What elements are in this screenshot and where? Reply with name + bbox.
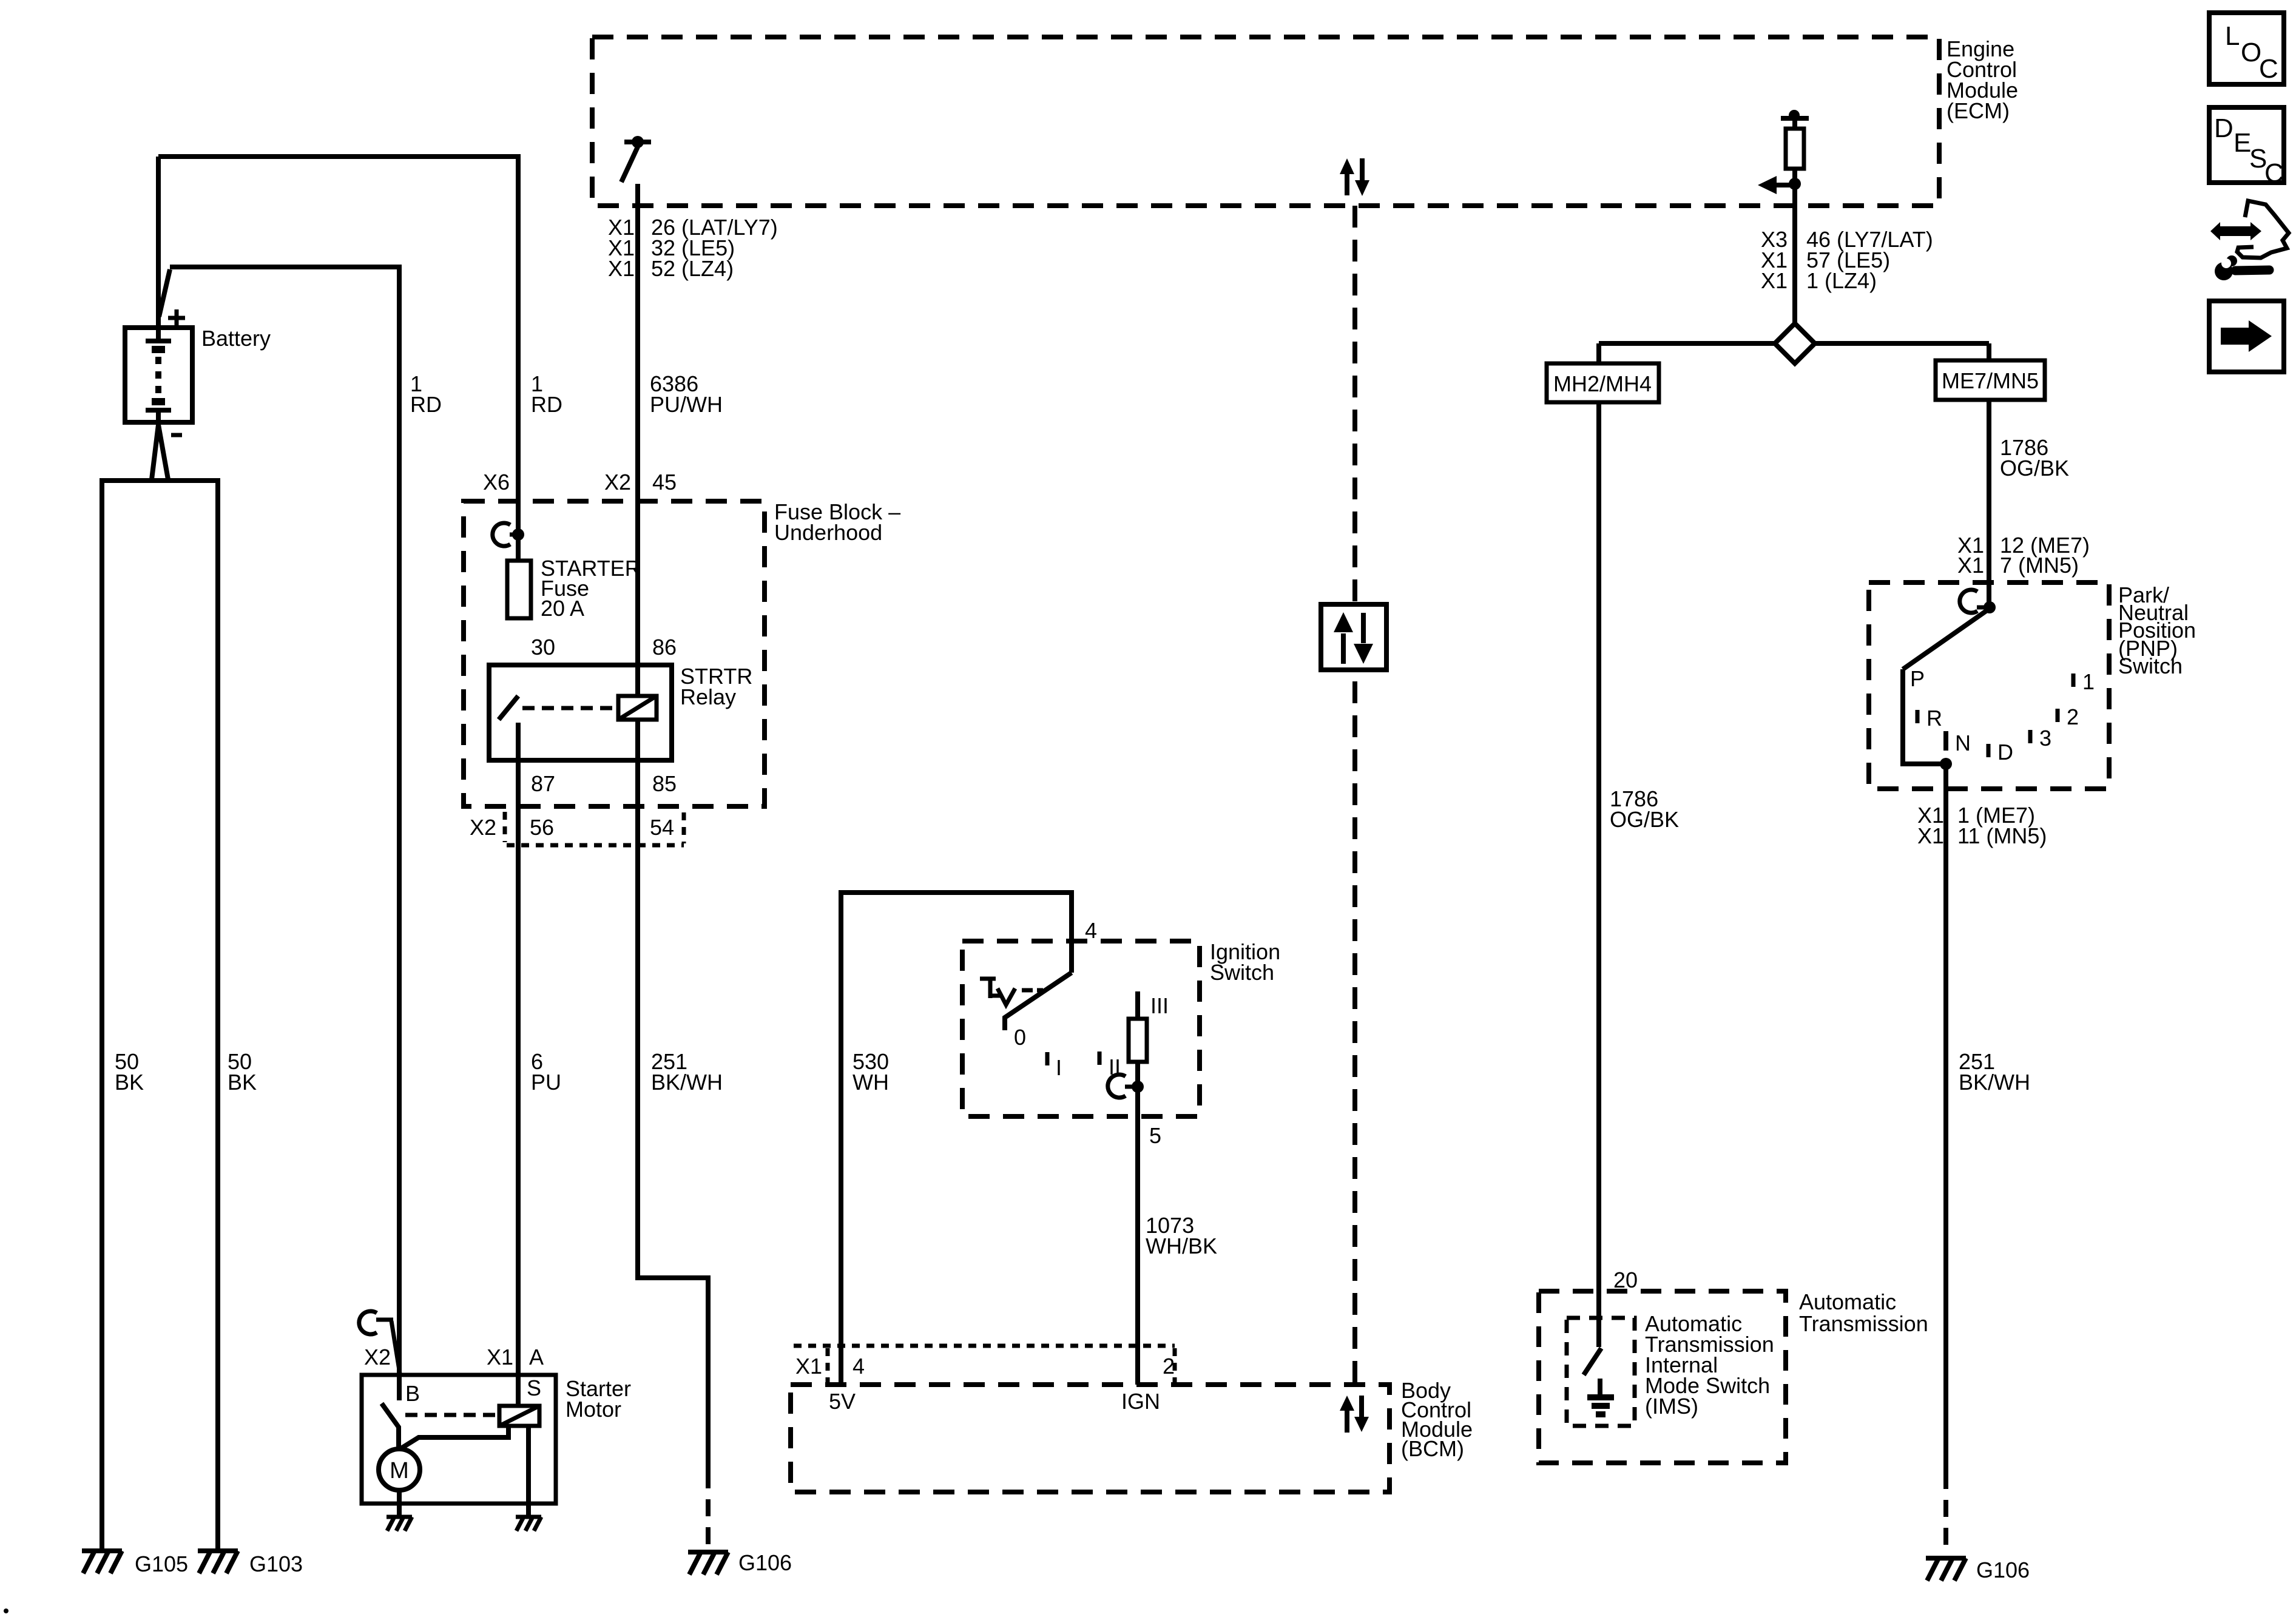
svg-text:0: 0 [1014, 1025, 1026, 1050]
BCM up/down arrows [1340, 1396, 1369, 1433]
wire coil to motor [401, 1426, 508, 1448]
ground G105 [82, 1551, 122, 1573]
wire ground bus [102, 478, 218, 483]
svg-text:G106: G106 [738, 1550, 792, 1575]
wire rail2 to starter B (1 RD left) [170, 267, 399, 1400]
svg-text:G103: G103 [249, 1551, 303, 1576]
connector ign pin5 symbol [1108, 1075, 1144, 1098]
svg-text:5V: 5V [829, 1389, 856, 1414]
svg-text:5: 5 [1149, 1123, 1161, 1148]
MH2/MH4 box [1547, 363, 1659, 402]
arrow box [2209, 301, 2284, 372]
BCM label [1401, 1378, 1473, 1461]
PNP switch blade [1903, 609, 1990, 669]
ground G106 right [1926, 1558, 1966, 1581]
relay dashed link [522, 706, 618, 711]
contact 2 tick and label [2056, 709, 2060, 722]
svg-text:45: 45 [652, 470, 677, 495]
svg-text:X1: X1 [608, 256, 635, 281]
wire motor to ground [397, 1490, 402, 1517]
svg-text:PU/WH: PU/WH [650, 392, 723, 417]
page dot [4, 1609, 8, 1613]
svg-text:C: C [2264, 158, 2284, 188]
wire bus right corner to ME7/MN5 [1987, 343, 1991, 360]
wire dashed to G106 right [1943, 1472, 1948, 1557]
svg-text:III: III [1150, 993, 1169, 1018]
svg-text:Switch: Switch [1210, 960, 1274, 985]
svg-text:PU: PU [531, 1070, 561, 1095]
battery [125, 328, 192, 424]
svg-text:D: D [1997, 740, 2013, 765]
DESC box [2209, 107, 2284, 188]
svg-text:Automatic: Automatic [1799, 1289, 1896, 1314]
svg-text:1 (LZ4): 1 (LZ4) [1806, 268, 1877, 293]
contact 1 tick and label [2071, 673, 2076, 687]
ground G103 [198, 1551, 238, 1573]
svg-text:X1: X1 [487, 1345, 513, 1369]
svg-text:WH/BK: WH/BK [1146, 1234, 1217, 1258]
LOC box [2209, 13, 2284, 84]
PNP N contact stub [1943, 731, 1948, 751]
connector X2 starter symbol [359, 1311, 400, 1374]
wire 530 WH [841, 893, 1072, 1385]
wire relay 85 down (251 BK/WH) [638, 720, 708, 1471]
ground starter motor [387, 1517, 412, 1531]
connector X6 symbol [493, 523, 524, 546]
wire solenoid to ground [526, 1426, 531, 1517]
wire 6386 PU/WH from ECM [635, 184, 640, 696]
label PNP pins top [1957, 533, 2090, 578]
wire battery negative V split [152, 425, 168, 479]
svg-text:52 (LZ4): 52 (LZ4) [651, 256, 734, 281]
serial data dashed wire ECM to BCM [1352, 206, 1357, 1385]
svg-text:Relay: Relay [680, 684, 736, 709]
svg-text:Motor: Motor [566, 1397, 621, 1422]
wire relay 87 down to starter S [516, 723, 521, 1406]
splice diamond [1775, 323, 1815, 363]
svg-text:86: 86 [652, 635, 677, 660]
svg-text:(IMS): (IMS) [1645, 1394, 1698, 1419]
starter switch blade [382, 1403, 399, 1449]
svg-text:56: 56 [530, 815, 554, 840]
svg-text:RD: RD [410, 392, 442, 417]
svg-text:BK: BK [228, 1070, 257, 1095]
IMS label [1645, 1311, 1774, 1419]
ECM module dashed box [592, 37, 1939, 206]
BCM dashed box [791, 1385, 1389, 1492]
svg-text:X1: X1 [1917, 823, 1944, 848]
contact II tick and label [1098, 1052, 1102, 1065]
svg-text:R: R [1926, 706, 1942, 731]
svg-text:M: M [390, 1458, 409, 1484]
starter motor box [362, 1375, 556, 1504]
svg-text:P: P [1910, 666, 1925, 691]
contact D tick and label [1987, 744, 1991, 757]
svg-text:N: N [1955, 731, 1971, 755]
ignition lock contact symbol [980, 979, 1043, 1005]
svg-text:S: S [527, 1376, 541, 1400]
svg-text:E: E [2234, 128, 2251, 158]
connector X1 row at BCM [794, 1346, 1175, 1382]
starter dashed link [405, 1413, 498, 1417]
contact 3 tick and label [2028, 730, 2033, 743]
svg-text:2: 2 [2067, 704, 2079, 729]
fuse block underhood dashed box [464, 501, 765, 806]
splice bus wire [1599, 341, 1989, 346]
svg-text:X1: X1 [795, 1354, 822, 1379]
svg-text:87: 87 [531, 771, 555, 796]
motor M circle [379, 1449, 420, 1490]
fuse STARTER 20A [507, 561, 531, 618]
svg-text:2: 2 [1163, 1354, 1175, 1379]
svg-text:G105: G105 [135, 1551, 188, 1576]
ground G106 left [688, 1552, 728, 1575]
wire bus left corner to MH2/MH4 [1596, 343, 1601, 363]
wire ME7/MN5 down to PNP (1786 OG/BK) [1987, 400, 1991, 607]
PNP label [2118, 582, 2196, 678]
wire PNP N down (251 BK/WH) [1943, 764, 1948, 1472]
svg-text:L: L [2225, 21, 2240, 51]
ignition resistor element [1135, 991, 1140, 1019]
wire MH2/MH4 down to IMS (1786 OG/BK) [1596, 402, 1601, 1347]
svg-text:X2: X2 [604, 470, 631, 495]
relay coil [618, 696, 657, 720]
svg-text:OG/BK: OG/BK [2000, 456, 2069, 481]
ECM resistor element right [1781, 110, 1809, 169]
label PNP pins bottom [1917, 803, 2047, 848]
starter solenoid coil [499, 1406, 539, 1426]
svg-text:RD: RD [531, 392, 562, 417]
svg-text:85: 85 [652, 771, 677, 796]
svg-text:MH2/MH4: MH2/MH4 [1553, 371, 1652, 396]
svg-text:X2: X2 [364, 1345, 391, 1369]
hand and wrench icon [2210, 201, 2289, 280]
automatic transmission outer dashed box [1539, 1291, 1786, 1463]
svg-text:3: 3 [2039, 726, 2051, 751]
battery minus sign [171, 433, 182, 437]
ignition switch blade [1005, 973, 1072, 1030]
svg-text:ME7/MN5: ME7/MN5 [1942, 368, 2039, 393]
svg-text:BK/WH: BK/WH [651, 1070, 723, 1095]
label ECM pins right [1761, 227, 1933, 293]
svg-text:C: C [2259, 54, 2278, 84]
wire 50 BK left [100, 478, 104, 1551]
svg-text:D: D [2214, 113, 2234, 143]
relay box [489, 665, 672, 760]
wire rail2 diagonal from battery [159, 269, 170, 317]
svg-text:BK/WH: BK/WH [1959, 1070, 2030, 1095]
svg-text:4: 4 [853, 1354, 865, 1379]
svg-text:G106: G106 [1976, 1558, 2030, 1582]
svg-text:11 (MN5): 11 (MN5) [1957, 823, 2047, 848]
label ECM pins left [608, 215, 778, 281]
svg-text:(BCM): (BCM) [1401, 1436, 1464, 1461]
svg-text:20: 20 [1613, 1268, 1638, 1292]
svg-text:A: A [529, 1345, 544, 1369]
wire 251 dashed to ground [706, 1471, 711, 1551]
wire ign pin 5 to BCM (1073 WH/BK) [1135, 1062, 1140, 1385]
relay switch blade [499, 696, 518, 720]
ECM left arrow [1758, 176, 1801, 194]
svg-text:X1: X1 [1761, 268, 1788, 293]
wire 50 BK right [215, 478, 220, 1551]
ignition switch dashed box [962, 941, 1200, 1116]
svg-text:30: 30 [531, 635, 555, 660]
ground starter solenoid [516, 1517, 541, 1531]
wire ECM right down to diamond [1792, 169, 1797, 324]
PNP switch dashed box [1869, 582, 2109, 789]
battery plus sign [168, 309, 185, 326]
contact R tick and label [1916, 710, 1920, 723]
svg-text:Transmission: Transmission [1799, 1311, 1928, 1336]
svg-text:Underhood: Underhood [774, 520, 882, 545]
up/down arrows at ECM [1340, 158, 1369, 196]
ME7/MN5 box [1936, 360, 2045, 400]
ECM internal switch [621, 136, 651, 182]
wire battery positive to rail1 [156, 157, 161, 328]
svg-text:7 (MN5): 7 (MN5) [2000, 553, 2079, 578]
svg-text:IGN: IGN [1121, 1389, 1160, 1414]
connector PNP symbol [1960, 590, 1996, 613]
connector X2 row at fuse block bottom [505, 812, 684, 845]
svg-text:B: B [405, 1381, 420, 1406]
PNP P contact line [1903, 669, 1946, 764]
IMS earth ground [1587, 1379, 1614, 1414]
IMS switch blade [1584, 1348, 1601, 1375]
svg-text:X2: X2 [470, 815, 496, 840]
svg-text:1: 1 [2082, 669, 2095, 694]
svg-text:X6: X6 [483, 470, 510, 495]
svg-text:WH: WH [853, 1070, 889, 1095]
svg-text:20 A: 20 A [541, 596, 584, 621]
svg-text:Switch: Switch [2118, 653, 2183, 678]
svg-text:OG/BK: OG/BK [1610, 807, 1679, 832]
IMS inner dashed box [1567, 1318, 1635, 1426]
svg-text:(ECM): (ECM) [1947, 98, 2010, 123]
svg-text:I: I [1056, 1055, 1062, 1080]
svg-text:X1: X1 [1957, 553, 1984, 578]
boxed up/down arrows [1321, 604, 1386, 670]
junction dot N [1940, 758, 1952, 770]
svg-text:54: 54 [650, 815, 674, 840]
wire rail1 to fuse block (1 RD right) [158, 157, 518, 561]
svg-text:Battery: Battery [201, 326, 271, 351]
contact I tick and label [1045, 1052, 1050, 1065]
svg-text:BK: BK [115, 1070, 144, 1095]
ECM label [1947, 36, 2018, 123]
